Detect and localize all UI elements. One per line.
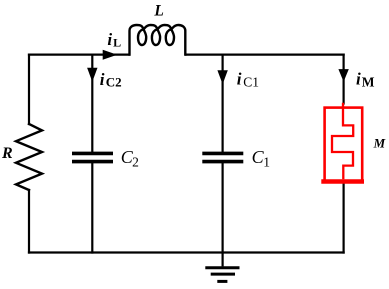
- wire left vertical lower: [28, 190, 30, 253]
- svg-text:L: L: [113, 36, 121, 50]
- capacitor C1: [202, 153, 243, 161]
- svg-text:L: L: [153, 2, 163, 19]
- svg-text:i: i: [237, 69, 242, 88]
- ground: [205, 253, 239, 282]
- arrow iM (down): [338, 69, 348, 82]
- svg-text:i: i: [356, 69, 361, 88]
- capacitor C2: [72, 153, 113, 161]
- wire C1 branch upper: [222, 55, 224, 152]
- memristor M: [321, 103, 364, 182]
- wire right vertical lower: [343, 184, 345, 253]
- arrow iC2 (down): [87, 68, 97, 82]
- svg-text:M: M: [373, 136, 386, 151]
- wire right vertical upper: [343, 55, 345, 104]
- wire bottom bus: [29, 251, 344, 253]
- arrow iL (right): [103, 50, 118, 60]
- svg-text:M: M: [362, 75, 375, 90]
- svg-text:1: 1: [263, 154, 270, 169]
- wire top-left horizontal (node from R to inductor): [29, 53, 129, 55]
- wire C2 branch upper: [91, 55, 93, 152]
- wire C2 branch lower: [91, 163, 93, 252]
- inductor L: [130, 25, 186, 55]
- resistor R: [16, 124, 42, 190]
- svg-text:i: i: [107, 30, 112, 49]
- wire top middle (inductor to right corner): [186, 53, 344, 55]
- svg-text:R: R: [1, 145, 13, 162]
- svg-text:C1: C1: [243, 75, 259, 90]
- svg-text:2: 2: [132, 154, 139, 169]
- wire C1 branch lower: [222, 163, 224, 252]
- svg-text:C2: C2: [106, 74, 122, 89]
- svg-text:i: i: [100, 70, 105, 89]
- wire left vertical upper: [28, 55, 30, 124]
- arrow iC1 (down): [217, 70, 227, 84]
